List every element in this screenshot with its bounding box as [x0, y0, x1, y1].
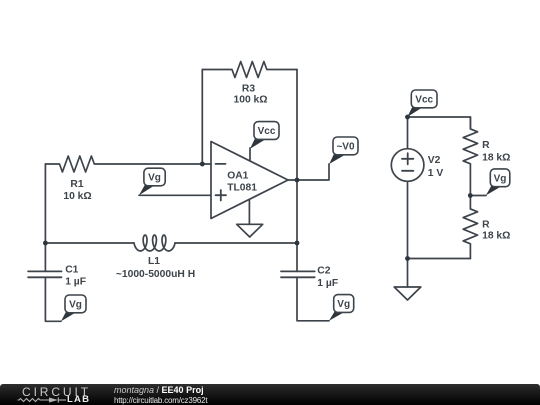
- ground at op-amp: [237, 224, 263, 237]
- svg-text:TL081: TL081: [227, 182, 257, 193]
- svg-text:L1: L1: [148, 256, 160, 267]
- capacitor C2: [281, 271, 315, 277]
- wire: V2 top lead: [407, 117, 409, 149]
- svg-text:1 V: 1 V: [428, 168, 444, 179]
- wire: C2 bottom to flag: [297, 277, 329, 321]
- capacitor C1: [28, 271, 61, 277]
- wire: R1 left corner down to C1 top: [44, 164, 46, 271]
- node junction dots: [43, 115, 473, 261]
- op-amp OA1: [211, 142, 288, 219]
- svg-text:Vcc: Vcc: [415, 94, 433, 105]
- node: Vcc rail: [405, 115, 410, 120]
- svg-text:R3: R3: [242, 84, 255, 95]
- wire: ground stub right: [407, 259, 409, 288]
- svg-text:Vg: Vg: [148, 173, 161, 184]
- svg-text:Vcc: Vcc: [258, 126, 276, 137]
- footer bar: [0, 384, 540, 405]
- wire: bottom horizontal right segment: [175, 242, 297, 244]
- wire: op-amp V- stub: [248, 199, 250, 224]
- flag Vcc at op-amp: [250, 122, 279, 149]
- svg-text:18 kΩ: 18 kΩ: [482, 152, 510, 163]
- node: divider mid: [468, 193, 473, 198]
- node: gnd rail: [405, 256, 410, 261]
- node: output: [295, 178, 300, 183]
- minus input symbol: [216, 163, 226, 165]
- svg-text:OA1: OA1: [227, 170, 248, 181]
- wire: plus input: [139, 194, 211, 196]
- resistor R upper: [463, 117, 477, 209]
- inductor L1: [134, 235, 175, 251]
- svg-text:C1: C1: [65, 265, 78, 276]
- svg-text:~V0: ~V0: [336, 141, 355, 152]
- svg-text:100 kΩ: 100 kΩ: [233, 95, 267, 106]
- flag Vg right: [486, 169, 510, 196]
- wire: bottom horizontal left segment: [45, 242, 134, 244]
- wire: top rail: [408, 117, 471, 129]
- node: left bottom: [43, 241, 48, 246]
- svg-text:18 kΩ: 18 kΩ: [482, 230, 510, 241]
- wire: R3 left vertical: [201, 70, 203, 165]
- svg-text:1 µF: 1 µF: [65, 277, 86, 288]
- ground right: [394, 287, 421, 300]
- svg-text:R: R: [482, 219, 490, 230]
- svg-text:10 kΩ: 10 kΩ: [63, 191, 91, 202]
- wire: bottom rail right: [408, 258, 471, 260]
- svg-text:Vg: Vg: [494, 173, 507, 184]
- svg-text:C2: C2: [317, 265, 330, 276]
- wire: R3 right vertical down through output node to C2: [296, 70, 298, 272]
- svg-text:Vg: Vg: [337, 299, 350, 310]
- flag Vg at C1: [61, 295, 86, 321]
- svg-text:V2: V2: [428, 155, 441, 166]
- resistor R lower: [463, 209, 477, 259]
- wire: V2 bottom lead: [407, 181, 409, 258]
- resistor R3: [202, 62, 297, 78]
- plus input symbol: [216, 190, 227, 201]
- svg-text:Vg: Vg: [69, 299, 82, 310]
- svg-text:1 µF: 1 µF: [317, 278, 338, 289]
- voltage source V2: [391, 149, 424, 182]
- wire: C1 bottom to flag: [45, 277, 61, 321]
- svg-text:~1000-5000uH H: ~1000-5000uH H: [116, 269, 195, 280]
- svg-text:R: R: [482, 140, 490, 151]
- wire: output: [288, 164, 329, 180]
- wire: op-amp V+ stub: [249, 148, 251, 161]
- resistor R1: [45, 156, 211, 172]
- node: right bottom (C2 top): [295, 241, 300, 246]
- flag Vg at C2: [329, 295, 354, 321]
- flag Vcc right: [407, 90, 437, 117]
- flag ~V0: [329, 137, 358, 164]
- CircuitLab logo: [22, 385, 91, 399]
- node: R1/R3 at minus input: [200, 162, 205, 167]
- svg-text:R1: R1: [70, 179, 83, 190]
- flag Vg at op-amp plus input: [139, 168, 165, 195]
- wire: Vg stub right: [470, 195, 486, 197]
